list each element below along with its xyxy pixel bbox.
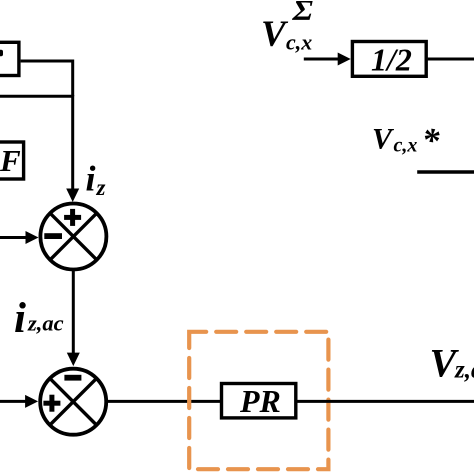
svg-text:Σ: Σ bbox=[291, 0, 313, 27]
label i_z,ac bbox=[14, 295, 64, 342]
svg-text:V: V bbox=[372, 123, 395, 156]
plus sign in S1 bbox=[64, 209, 81, 226]
wire from 1/2 block to right edge bbox=[428, 58, 474, 61]
block PR bbox=[222, 383, 296, 419]
wire S2 to PR block bbox=[106, 400, 220, 403]
wire vertical down to summing junction S1 bbox=[71, 95, 74, 190]
summing junction S1 bbox=[40, 204, 106, 270]
label V_c,x^sigma bbox=[261, 0, 314, 55]
arrowhead into S1 top bbox=[66, 189, 79, 203]
label V_c,x* bbox=[372, 121, 440, 160]
arrowhead into S2 top bbox=[67, 353, 80, 367]
svg-text:z,ac: z,ac bbox=[27, 311, 64, 336]
svg-text:c,x: c,x bbox=[286, 30, 312, 55]
wire S1 bottom to summing junction S2 bbox=[72, 270, 75, 355]
plus sign in S2 bbox=[43, 395, 60, 412]
wire arrow into S2 from left edge bbox=[0, 400, 27, 403]
dashed highlight box (orange) bbox=[189, 332, 328, 469]
svg-text:c,x: c,x bbox=[394, 135, 418, 157]
svg-text:z: z bbox=[96, 175, 106, 200]
label V_z,ac (cut off at right edge) bbox=[430, 341, 474, 386]
svg-text:i: i bbox=[86, 159, 96, 199]
wire arrow into S1 from left edge bbox=[0, 236, 27, 239]
svg-text:V: V bbox=[261, 14, 289, 55]
svg-text:z,ac: z,ac bbox=[454, 357, 474, 384]
svg-text:i: i bbox=[14, 295, 26, 342]
svg-text:F: F bbox=[0, 143, 21, 178]
minus sign in S1 bbox=[44, 233, 62, 239]
svg-text:PR: PR bbox=[239, 383, 281, 419]
block U1 (top-left, cut off at image edge) bbox=[0, 42, 19, 75]
block F (LPF, cut off at image edge) bbox=[0, 142, 24, 179]
svg-text:1/2: 1/2 bbox=[371, 42, 412, 78]
wire horizontal into node A from left edge bbox=[0, 95, 73, 98]
block 1/2 bbox=[352, 42, 426, 78]
wire stub at V_c,x* (cut off at right edge) bbox=[417, 170, 474, 173]
wire arrow into 1/2 block bbox=[304, 58, 339, 61]
summing junction S2 bbox=[40, 369, 106, 435]
minus sign in S2 bbox=[64, 375, 81, 381]
label i_z bbox=[86, 159, 106, 200]
wire from U1 to node A (corner) bbox=[21, 61, 73, 96]
svg-text:*: * bbox=[422, 121, 440, 160]
wire PR to right edge bbox=[298, 400, 474, 403]
